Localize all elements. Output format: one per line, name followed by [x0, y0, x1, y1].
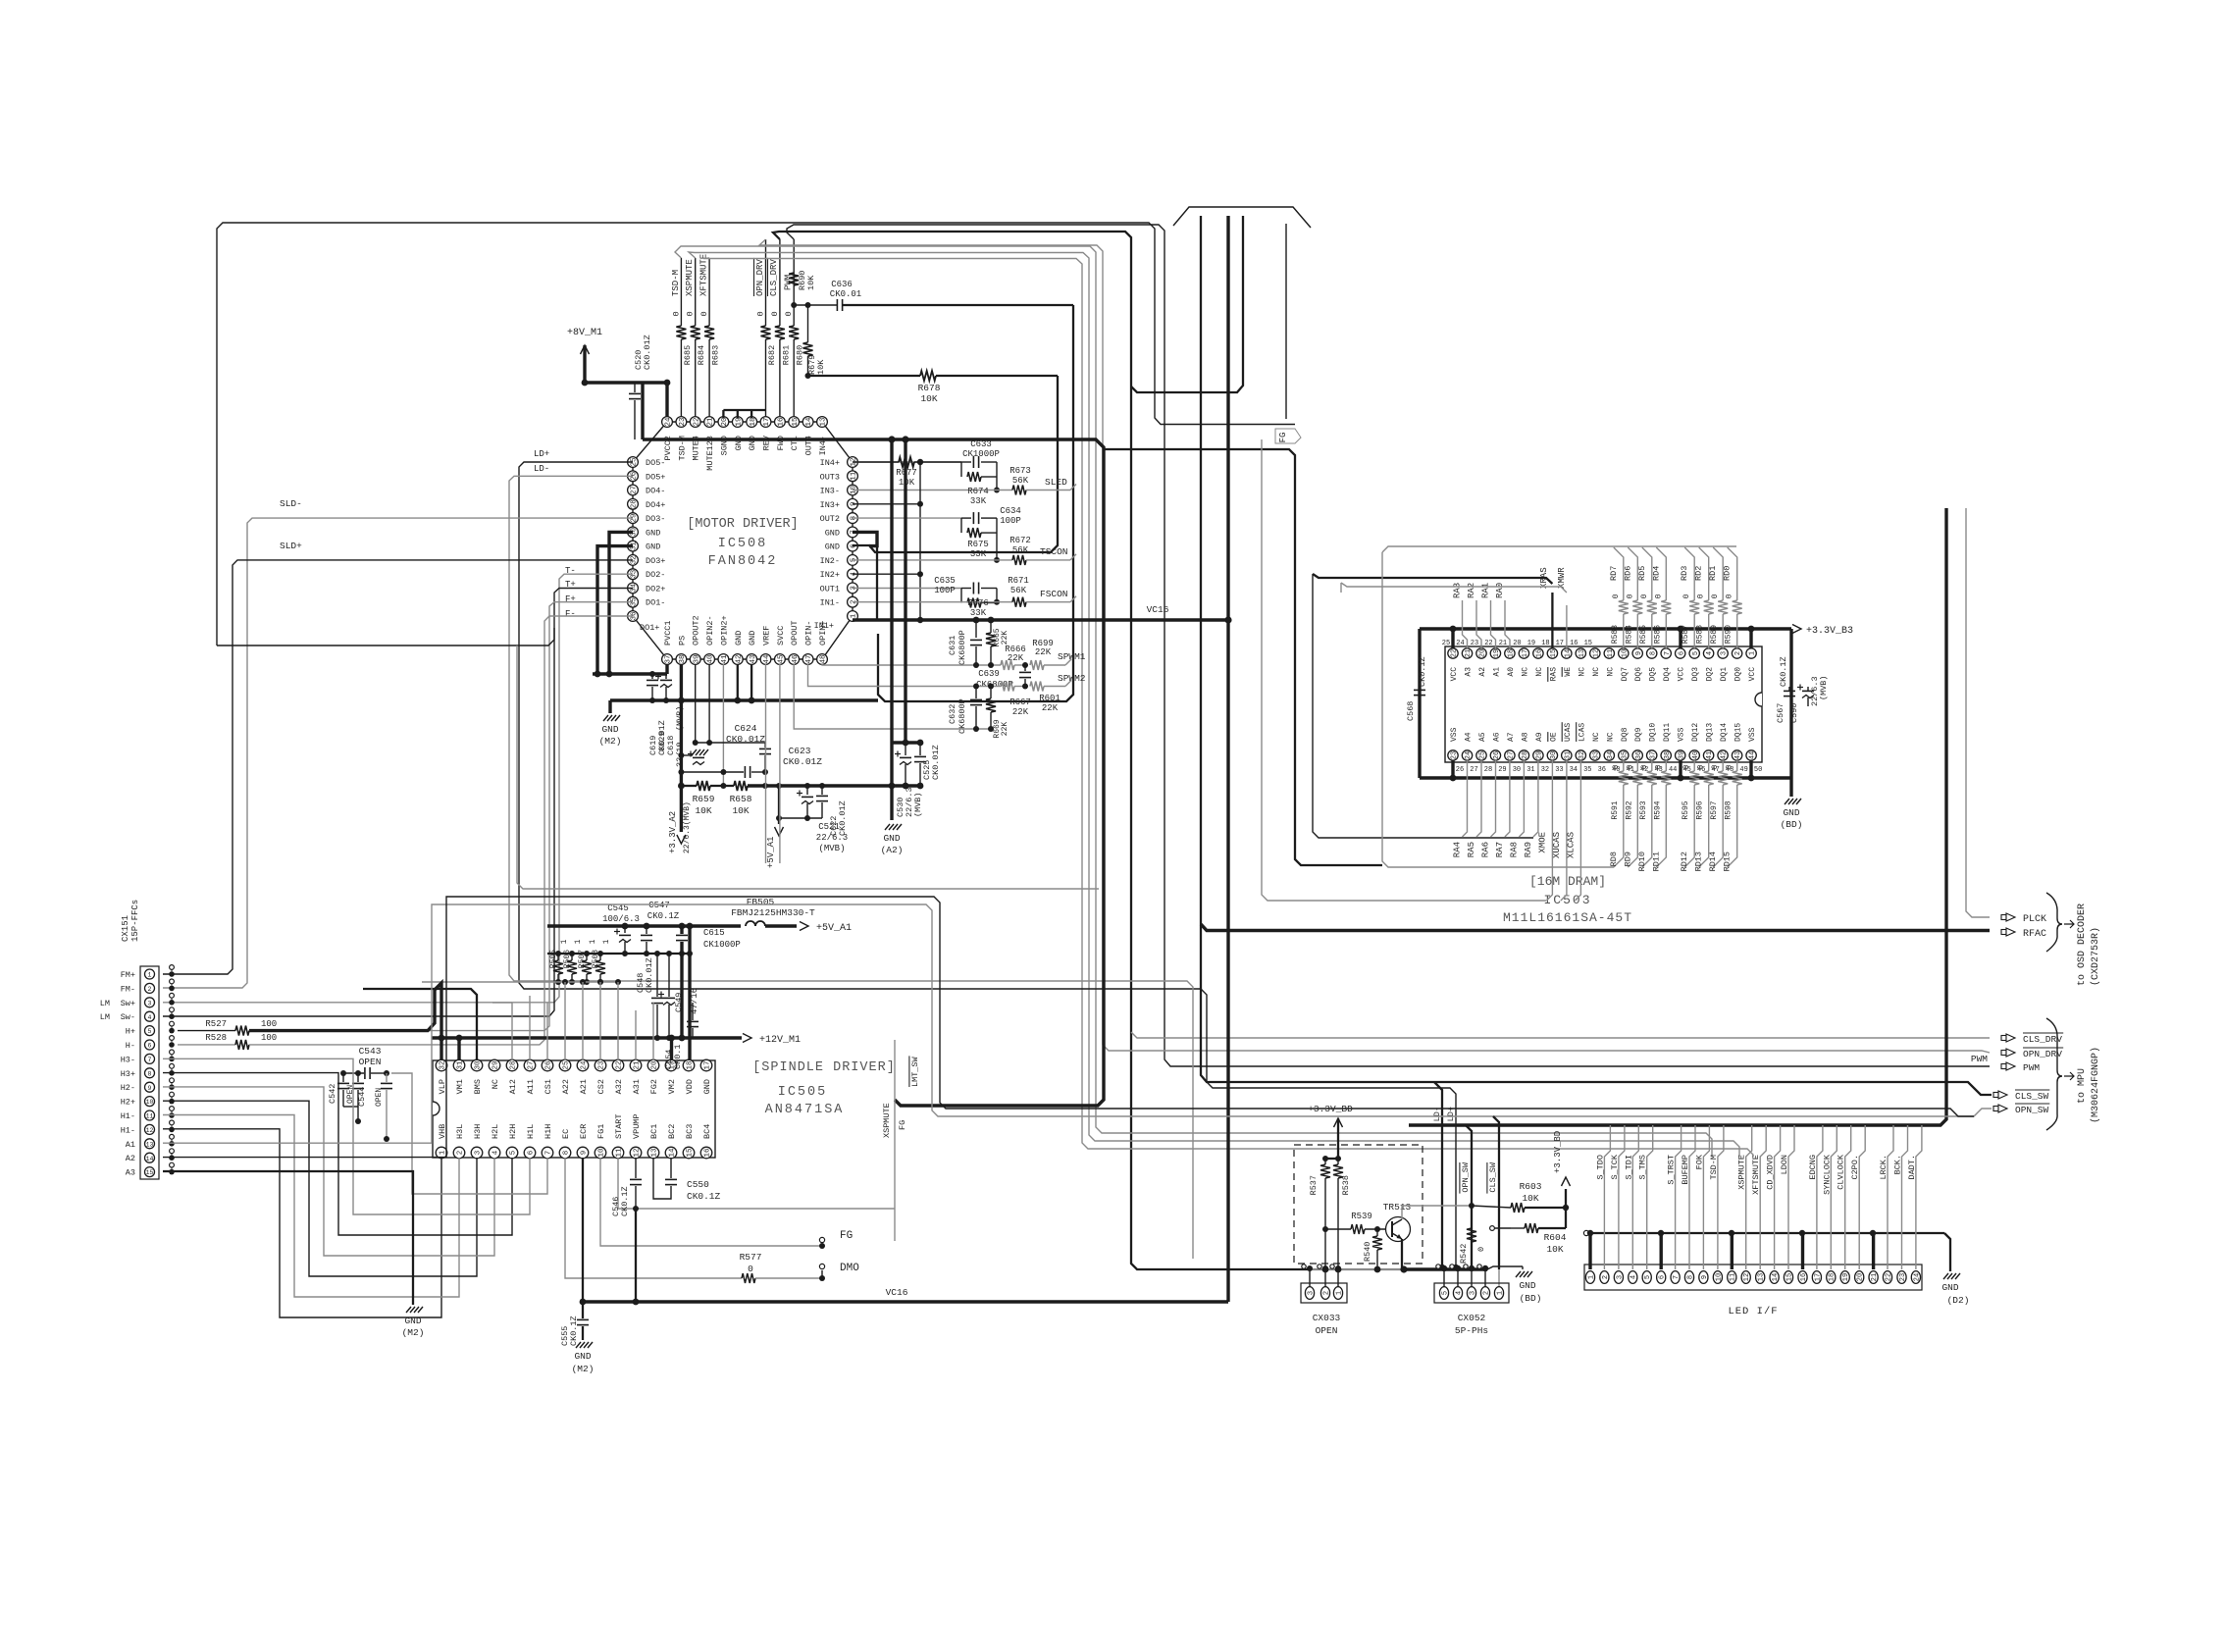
- svg-text:LRCK.: LRCK.: [1879, 1155, 1889, 1180]
- svg-text:48: 48: [820, 654, 828, 663]
- capacitor C639 CK6800P between SPWM rows: [1024, 665, 1026, 671]
- connector LED I/F signal lines with net labels: [1604, 1125, 1610, 1269]
- svg-text:23: 23: [598, 1060, 606, 1070]
- svg-text:R537: R537: [1309, 1175, 1319, 1195]
- svg-text:38: 38: [1664, 751, 1672, 759]
- svg-text:[SPINDLE DRIVER]: [SPINDLE DRIVER]: [752, 1060, 896, 1075]
- svg-text:15: 15: [792, 417, 800, 427]
- svg-text:47/16: 47/16: [690, 988, 699, 1014]
- svg-text:IN3+: IN3+: [820, 500, 840, 510]
- svg-text:26: 26: [545, 1060, 553, 1070]
- svg-text:24: 24: [1913, 1273, 1921, 1281]
- svg-text:28: 28: [510, 1060, 518, 1069]
- ground GND (BD) near CX052: [1487, 1266, 1523, 1269]
- svg-text:DQ12: DQ12: [1691, 723, 1700, 742]
- svg-text:S_TDI: S_TDI: [1624, 1155, 1633, 1180]
- resistors R682 R681 R680 (0 ohm) on pins 17-15: [765, 239, 767, 326]
- svg-text:RA0: RA0: [1495, 583, 1505, 598]
- svg-text:CK0.01: CK0.01: [830, 289, 861, 299]
- svg-text:RD12: RD12: [1680, 852, 1689, 871]
- svg-text:+8V_M1: +8V_M1: [567, 328, 602, 338]
- wire bus into CX033/TR area: [1310, 1268, 1404, 1270]
- resistor R603 10K: [1472, 1206, 1511, 1208]
- svg-text:RD3: RD3: [1680, 566, 1689, 581]
- svg-text:22K: 22K: [1042, 703, 1059, 713]
- svg-text:GND: GND: [825, 542, 840, 552]
- brace to MPU: [2046, 1018, 2062, 1130]
- svg-text:23: 23: [679, 417, 687, 427]
- svg-text:DQ2: DQ2: [1706, 667, 1715, 682]
- svg-text:H+: H+: [126, 1027, 135, 1037]
- svg-text:S_TMS: S_TMS: [1638, 1155, 1648, 1180]
- svg-text:0: 0: [1711, 594, 1720, 598]
- svg-text:VPUMP: VPUMP: [632, 1113, 642, 1139]
- svg-text:FWD: FWD: [776, 436, 786, 450]
- svg-text:R681: R681: [781, 345, 791, 365]
- IC505 bottom pins 1-16 with labels: [436, 1147, 447, 1159]
- svg-text:(BD): (BD): [1520, 1293, 1542, 1304]
- svg-text:OUT1: OUT1: [820, 584, 840, 594]
- svg-text:RA3: RA3: [1453, 583, 1463, 598]
- svg-text:LM: LM: [100, 999, 110, 1008]
- svg-text:RD4: RD4: [1651, 566, 1661, 581]
- svg-text:M11L16161SA-45T: M11L16161SA-45T: [1503, 910, 1632, 925]
- svg-text:IN4+: IN4+: [820, 458, 840, 468]
- svg-text:56K: 56K: [1012, 545, 1029, 555]
- svg-text:2: 2: [148, 986, 152, 993]
- svg-text:A3: A3: [1465, 667, 1474, 677]
- svg-text:A31: A31: [632, 1079, 642, 1094]
- svg-text:REV: REV: [762, 435, 772, 450]
- svg-text:RD2: RD2: [1694, 566, 1704, 581]
- svg-text:R683: R683: [711, 345, 721, 365]
- svg-text:10K: 10K: [732, 805, 749, 816]
- svg-text:(MVB): (MVB): [1819, 675, 1829, 700]
- svg-text:2: 2: [457, 1151, 465, 1156]
- svg-text:41: 41: [1706, 751, 1714, 759]
- net labels RA3-RA0 top fan: [1463, 600, 1468, 648]
- svg-text:CK0.1Z: CK0.1Z: [1418, 656, 1427, 687]
- svg-text:47: 47: [805, 654, 813, 663]
- svg-text:29: 29: [492, 1060, 500, 1069]
- svg-text:FOK: FOK: [1694, 1154, 1704, 1169]
- svg-text:27: 27: [631, 486, 639, 494]
- svg-text:0: 0: [1476, 1247, 1486, 1252]
- svg-text:R584: R584: [1625, 625, 1633, 644]
- svg-text:SPWM2: SPWM2: [1058, 673, 1086, 684]
- svg-text:C543: C543: [359, 1046, 382, 1057]
- svg-text:GND: GND: [1519, 1280, 1535, 1291]
- svg-text:8: 8: [563, 1151, 571, 1156]
- svg-text:(M2): (M2): [572, 1364, 595, 1374]
- svg-text:27: 27: [1470, 766, 1477, 774]
- capacitor C543 OPEN cluster with C542 C544: [343, 1072, 364, 1074]
- svg-text:6: 6: [528, 1150, 536, 1155]
- svg-text:RD9: RD9: [1623, 852, 1632, 866]
- wire GND pins 7/6 tie x894: [853, 532, 877, 545]
- row lower return of SPWM cluster: [888, 728, 991, 730]
- svg-text:F-: F-: [565, 609, 576, 619]
- svg-text:17: 17: [1556, 640, 1564, 647]
- svg-text:0: 0: [1612, 764, 1621, 769]
- svg-text:OPOUT2: OPOUT2: [692, 615, 701, 645]
- svg-text:H3H: H3H: [473, 1124, 483, 1139]
- svg-text:R604: R604: [1544, 1232, 1567, 1243]
- capacitor C632 CK6800P: [975, 687, 977, 699]
- svg-text:1: 1: [560, 939, 569, 944]
- svg-text:RD7: RD7: [1609, 566, 1619, 581]
- svg-text:21: 21: [707, 417, 715, 427]
- svg-text:20: 20: [1479, 649, 1487, 657]
- wire VPUMP pin12 down to VC16: [635, 1209, 637, 1302]
- svg-text:5: 5: [510, 1150, 518, 1155]
- svg-text:21: 21: [1465, 649, 1473, 657]
- svg-text:21: 21: [634, 1060, 642, 1070]
- svg-text:DQ5: DQ5: [1649, 667, 1658, 682]
- svg-text:XFTSMUTE: XFTSMUTE: [699, 254, 709, 296]
- wires pins 39/40/41 down: [695, 664, 697, 743]
- IC505 body: [433, 1060, 715, 1158]
- wire LED ground stubs pins 1 6 11 16 21: [1588, 1233, 1591, 1269]
- svg-text:17: 17: [763, 417, 771, 426]
- svg-text:C634: C634: [1000, 506, 1021, 516]
- svg-text:13: 13: [1578, 649, 1586, 657]
- svg-text:NC: NC: [1592, 732, 1601, 742]
- svg-text:XMWR: XMWR: [1557, 567, 1567, 589]
- svg-text:SLED: SLED: [1045, 477, 1067, 488]
- svg-text:0: 0: [699, 311, 709, 316]
- svg-text:10K: 10K: [1522, 1193, 1538, 1204]
- power rail +3.3V_B3: [1420, 627, 1791, 630]
- connector CX052 top circles: [1436, 1265, 1440, 1268]
- svg-text:22: 22: [693, 417, 700, 426]
- svg-text:29: 29: [1536, 751, 1544, 759]
- svg-text:24: 24: [665, 417, 673, 427]
- svg-text:C547: C547: [648, 901, 670, 910]
- svg-text:0: 0: [748, 1264, 753, 1274]
- svg-text:16: 16: [704, 1148, 712, 1158]
- svg-text:LDON: LDON: [1780, 1155, 1789, 1174]
- svg-text:15: 15: [1785, 1273, 1793, 1281]
- svg-text:A12: A12: [508, 1079, 518, 1094]
- IC508 left pins 25-36 with labels: [628, 457, 639, 468]
- svg-text:C550: C550: [687, 1179, 709, 1190]
- svg-text:A9: A9: [1535, 732, 1544, 742]
- svg-text:IN2+: IN2+: [820, 570, 840, 580]
- svg-text:R593: R593: [1639, 800, 1648, 819]
- svg-text:C631: C631: [948, 636, 957, 655]
- svg-text:100P: 100P: [1000, 516, 1021, 526]
- svg-text:15P-FFCs: 15P-FFCs: [130, 900, 140, 942]
- svg-text:20: 20: [1857, 1273, 1865, 1281]
- svg-text:0: 0: [1640, 764, 1649, 769]
- svg-text:to MPU: to MPU: [2077, 1068, 2088, 1104]
- wires CX151 H pins to IC505 bottom pins (nested): [163, 1129, 441, 1317]
- svg-text:41: 41: [721, 654, 729, 664]
- svg-text:(MVB): (MVB): [818, 844, 845, 853]
- svg-text:34: 34: [1607, 751, 1615, 759]
- wire IC505 pin7 H1H route: [391, 1073, 547, 1194]
- svg-text:22: 22: [1885, 1273, 1892, 1281]
- svg-text:A2: A2: [1478, 667, 1487, 677]
- resistors R685 R684 R683 (0 ohm) on pins 23-21: [680, 258, 682, 326]
- row y787 with capacitor C622 CK0.01Z: [681, 771, 744, 773]
- svg-text:DQ7: DQ7: [1621, 667, 1630, 682]
- wire VDD pin18 to +5V rail: [688, 926, 691, 1060]
- svg-text:RD15: RD15: [1723, 852, 1733, 871]
- svg-text:LM: LM: [100, 1012, 110, 1022]
- svg-text:C635: C635: [934, 576, 956, 586]
- svg-text:H-: H-: [126, 1041, 135, 1051]
- svg-text:DO3+: DO3+: [646, 556, 665, 566]
- svg-text:R583: R583: [1611, 625, 1620, 644]
- resistor R669 22K: [990, 687, 992, 699]
- svg-text:LED I/F: LED I/F: [1728, 1306, 1778, 1317]
- svg-text:R682: R682: [767, 345, 777, 365]
- svg-text:CK0.1Z: CK0.1Z: [1779, 656, 1788, 687]
- svg-text:11: 11: [146, 1113, 154, 1120]
- svg-text:(CXD2753R): (CXD2753R): [2090, 927, 2101, 986]
- svg-text:OPN_DRV: OPN_DRV: [2023, 1049, 2062, 1059]
- svg-text:1: 1: [602, 939, 611, 944]
- svg-text:CLS_DRV: CLS_DRV: [769, 259, 779, 296]
- wire bus from hat down (x1224) to CLS_SW: [1201, 216, 1992, 1095]
- svg-text:4: 4: [1455, 1291, 1463, 1295]
- svg-text:C615: C615: [703, 928, 725, 938]
- svg-text:CK0.01Z: CK0.01Z: [726, 734, 765, 745]
- svg-text:FG: FG: [1278, 433, 1288, 443]
- svg-text:GND: GND: [574, 1351, 591, 1362]
- svg-text:0: 0: [1612, 594, 1621, 598]
- svg-text:[16M DRAM]: [16M DRAM]: [1529, 874, 1606, 889]
- wire net CLS_SW vertical: [1493, 1116, 1499, 1269]
- net labels RA4-RA9 bottom fan: [1463, 760, 1468, 837]
- wire F+ pin35: [267, 602, 633, 1031]
- svg-text:ECR: ECR: [579, 1124, 589, 1139]
- capacitor C623 CK0.01Z: [764, 743, 766, 748]
- wire address bus verticals and wrap buses: [1313, 574, 1533, 838]
- power rail +5V_A1 with ferrite FB505: [547, 924, 741, 927]
- svg-text:SLD+: SLD+: [280, 541, 302, 551]
- resistor R678 10K: [808, 375, 921, 377]
- svg-text:IC508: IC508: [718, 537, 768, 551]
- wire pin20 FG2 and pin21 A31 up: [652, 1003, 654, 1060]
- svg-text:18: 18: [1829, 1273, 1837, 1281]
- svg-text:AN8471SA: AN8471SA: [765, 1103, 845, 1117]
- svg-text:27: 27: [528, 1060, 536, 1069]
- svg-text:RA8: RA8: [1509, 842, 1519, 857]
- svg-text:RA6: RA6: [1481, 842, 1491, 857]
- svg-text:RA5: RA5: [1467, 842, 1476, 857]
- svg-text:Sw+: Sw+: [121, 999, 135, 1008]
- svg-text:36: 36: [1635, 751, 1643, 759]
- svg-text:38: 38: [679, 654, 687, 663]
- svg-text:A8: A8: [1521, 732, 1529, 742]
- dashed box around TR513: [1294, 1145, 1423, 1264]
- net labels XSPMUTE FG vertical: [894, 1040, 896, 1241]
- svg-text:7: 7: [545, 1151, 553, 1156]
- svg-text:21: 21: [1871, 1273, 1879, 1281]
- svg-text:C544: C544: [357, 1087, 367, 1107]
- svg-text:A21: A21: [579, 1079, 589, 1094]
- svg-text:R685: R685: [683, 345, 693, 365]
- svg-text:IN1-: IN1-: [820, 598, 840, 608]
- wire EC pin8 down to R577 row: [565, 1158, 687, 1278]
- svg-text:FBMJ2125HM330-T: FBMJ2125HM330-T: [731, 907, 815, 918]
- svg-text:56K: 56K: [1010, 586, 1027, 595]
- svg-text:17: 17: [1522, 649, 1529, 657]
- svg-text:C632: C632: [948, 704, 957, 724]
- svg-text:6: 6: [148, 1043, 152, 1050]
- capacitors C567 CK0.1Z and C590 22/6.3 (MVB) right: [1789, 629, 1792, 778]
- svg-text:19: 19: [735, 417, 743, 426]
- svg-text:29: 29: [1498, 766, 1506, 774]
- svg-text:12: 12: [1743, 1273, 1751, 1281]
- svg-text:C590: C590: [1789, 703, 1799, 723]
- svg-text:VSS: VSS: [1748, 727, 1757, 742]
- net arrow OPN_DRV with overbar: [2001, 1051, 2006, 1056]
- svg-text:2: 2: [1734, 651, 1742, 655]
- svg-text:3: 3: [1616, 1275, 1624, 1279]
- svg-text:XMOE: XMOE: [1537, 832, 1547, 853]
- svg-text:22: 22: [616, 1060, 624, 1069]
- svg-text:27: 27: [1508, 751, 1516, 759]
- svg-text:OPIN2-: OPIN2-: [705, 615, 715, 645]
- connector CX033 box: [1301, 1283, 1347, 1303]
- wire DRAM bottom VSS rail: [1420, 776, 1791, 779]
- svg-text:PVCC1: PVCC1: [663, 620, 673, 645]
- svg-text:(A2): (A2): [881, 845, 904, 855]
- wire thick corner y448: [643, 439, 1104, 1106]
- wire section boundary / XSPMUTE route: [517, 645, 1099, 889]
- svg-text:22: 22: [1484, 640, 1492, 647]
- svg-text:H1L: H1L: [526, 1124, 536, 1139]
- svg-text:100P: 100P: [934, 586, 956, 595]
- svg-text:R601: R601: [1039, 694, 1061, 703]
- svg-text:A22: A22: [561, 1079, 571, 1094]
- svg-text:R676: R676: [967, 598, 989, 608]
- svg-text:H1H: H1H: [543, 1124, 553, 1139]
- resistor R527 100: [178, 1030, 235, 1032]
- capacitor C550 CK0.1Z: [670, 1158, 672, 1178]
- capacitor C629 22/6.3: [678, 752, 684, 758]
- node FG tag: [1275, 429, 1301, 443]
- brace to OSD DECODER: [2046, 893, 2062, 952]
- svg-text:10: 10: [146, 1099, 154, 1106]
- svg-text:0: 0: [1697, 594, 1706, 598]
- connector LED I/F box: [1584, 1265, 1922, 1290]
- wire PLCK from DRAM area: [1966, 508, 1990, 917]
- svg-text:A4: A4: [1465, 732, 1474, 742]
- svg-text:R672: R672: [1009, 536, 1031, 545]
- svg-text:0: 0: [770, 311, 780, 316]
- svg-text:[MOTOR DRIVER]: [MOTOR DRIVER]: [687, 517, 798, 532]
- svg-text:VC16: VC16: [886, 1287, 908, 1298]
- svg-text:R586: R586: [1653, 625, 1662, 644]
- svg-text:12: 12: [146, 1127, 154, 1134]
- wire RD bus horizontal y558: [1382, 546, 1736, 552]
- svg-text:9: 9: [1635, 651, 1643, 655]
- svg-text:C636: C636: [831, 280, 853, 289]
- svg-text:DQ10: DQ10: [1649, 723, 1658, 742]
- svg-text:R598: R598: [1725, 800, 1733, 819]
- wire net CLS_DRV / hat wire vertical x1153: [773, 232, 1310, 1269]
- svg-text:GND: GND: [825, 528, 840, 538]
- net labels XMOE XUCAS XLCAS: [1546, 760, 1552, 901]
- svg-text:OUT3: OUT3: [820, 472, 840, 482]
- capacitor C546 CK0.1Z: [635, 1158, 637, 1178]
- svg-text:A32: A32: [614, 1079, 624, 1094]
- wire DRAM left VCC/VSS loop with capacitor C568 CK0.1Z: [1418, 629, 1421, 778]
- svg-text:0: 0: [671, 311, 681, 316]
- wire thick bus from hat to VC16/bottom (x1252): [1226, 216, 1229, 1302]
- svg-text:DQ14: DQ14: [1720, 723, 1729, 742]
- row SPWM1 with resistors R666 22K R699 22K: [888, 664, 1001, 666]
- svg-text:DO4-: DO4-: [646, 487, 665, 496]
- svg-text:R671: R671: [1008, 576, 1029, 586]
- svg-text:R674: R674: [967, 487, 989, 496]
- distribution row y972: [547, 953, 690, 955]
- svg-text:BC2: BC2: [667, 1124, 677, 1139]
- wire net TSD-M across: [675, 246, 1712, 1157]
- svg-text:0: 0: [1726, 764, 1734, 769]
- svg-text:19: 19: [1493, 649, 1501, 657]
- svg-text:R577: R577: [740, 1252, 762, 1263]
- svg-text:FG1: FG1: [596, 1124, 606, 1139]
- wire F- pin36: [267, 616, 633, 1045]
- wire net XSPMUTE across: [689, 252, 1739, 1157]
- svg-text:7: 7: [148, 1057, 152, 1063]
- svg-text:0: 0: [1697, 764, 1706, 769]
- svg-text:0: 0: [1726, 594, 1734, 598]
- svg-text:40: 40: [707, 654, 715, 664]
- svg-text:R585: R585: [1639, 625, 1648, 644]
- svg-text:20: 20: [721, 417, 729, 427]
- svg-text:A3: A3: [126, 1168, 135, 1178]
- resistor R604 10K: [1511, 1227, 1525, 1229]
- cable-bundle hat symbol: [1173, 207, 1311, 228]
- IC IC508 body outline (motor driver): [633, 422, 853, 659]
- svg-text:10: 10: [1621, 649, 1629, 657]
- svg-text:12: 12: [1592, 649, 1600, 657]
- svg-text:DQ0: DQ0: [1734, 667, 1743, 682]
- resistor R537: [1324, 1159, 1326, 1164]
- svg-text:23: 23: [1451, 751, 1459, 759]
- svg-text:H3-: H3-: [121, 1055, 135, 1064]
- svg-text:20: 20: [1513, 640, 1521, 647]
- svg-text:R596: R596: [1696, 800, 1705, 819]
- capacitor C619 CK0.01Z: [647, 679, 658, 681]
- ground rail under IC508: [610, 698, 878, 701]
- wire pins 46/47/48 to SPWM rows: [794, 664, 888, 729]
- svg-text:18: 18: [750, 417, 757, 426]
- svg-text:R588: R588: [1696, 625, 1705, 644]
- resistors R591-R598 (0 ohm) to nets RD8-RD15: [1623, 760, 1625, 771]
- svg-text:DQ13: DQ13: [1706, 723, 1715, 742]
- svg-text:24: 24: [581, 1060, 589, 1070]
- svg-text:LD-: LD-: [534, 464, 549, 474]
- svg-text:22K: 22K: [1008, 653, 1024, 663]
- svg-text:OPN_SW: OPN_SW: [2015, 1105, 2049, 1115]
- svg-text:18: 18: [1508, 649, 1516, 657]
- svg-text:CK0.01Z: CK0.01Z: [643, 335, 652, 370]
- svg-text:18: 18: [687, 1060, 695, 1069]
- capacitor C634 100P / resistor R675 33K / resistor R672 56K / net TSCON: [853, 517, 961, 519]
- svg-text:23: 23: [1899, 1273, 1907, 1281]
- svg-text:15: 15: [146, 1169, 154, 1176]
- svg-text:9: 9: [1701, 1275, 1709, 1279]
- net arrow OPN_SW with overbar: [1993, 1107, 1998, 1111]
